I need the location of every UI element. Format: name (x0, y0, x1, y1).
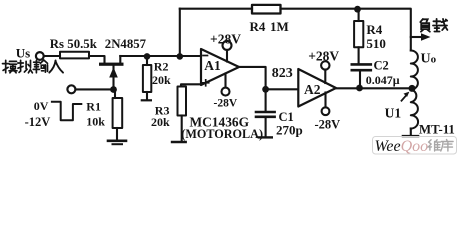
svg-text:WeeQoo: WeeQoo (375, 138, 429, 155)
svg-text:Rs: Rs (50, 37, 64, 51)
svg-text:Us: Us (16, 45, 30, 60)
svg-text:R1: R1 (86, 99, 101, 113)
A1 +28V pin circle (223, 41, 232, 50)
char 入 (49, 60, 63, 72)
A2 -28V pin circle (322, 107, 330, 115)
input terminal Us (36, 52, 44, 60)
pulse waveform symbol (52, 102, 81, 120)
svg-text:270p: 270p (276, 122, 303, 137)
resistor R2 body (143, 65, 151, 92)
node transformer tap dot (409, 85, 416, 92)
wire pulse terminal to gate node (76, 88, 110, 90)
svg-text:2N4857: 2N4857 (105, 37, 147, 51)
svg-text:510: 510 (366, 36, 386, 51)
svg-text:R4: R4 (366, 22, 382, 37)
svg-text:-12V: -12V (25, 115, 51, 129)
svg-text:Uo: Uo (421, 52, 437, 67)
wire feedback vertical (179, 9, 181, 57)
transistor Q1 source lead (119, 56, 121, 63)
label 模拟输入 (analog input, drawn glyphs) (3, 60, 64, 73)
wire top rail left (180, 8, 252, 10)
svg-text:10k: 10k (86, 114, 105, 128)
node gate junction dot (110, 86, 117, 93)
A2 +28V pin stem (324, 70, 326, 83)
svg-text:+28V: +28V (210, 31, 241, 46)
svg-text:20k: 20k (152, 73, 171, 87)
svg-text:R4: R4 (250, 19, 266, 34)
node C2 junction dot (356, 85, 363, 92)
A1 minus mark (203, 55, 208, 57)
ground below C1 (259, 136, 272, 138)
wire A2 output (336, 87, 412, 89)
ground below R1 (108, 140, 126, 143)
char 负 (420, 19, 430, 32)
load arrow (411, 36, 422, 38)
svg-text:823: 823 (272, 66, 293, 81)
svg-text:50.5k: 50.5k (67, 37, 97, 51)
svg-text:R2: R2 (154, 59, 169, 73)
char 库 (441, 140, 453, 152)
node R2 junction dot (144, 53, 151, 60)
transistor Q1 2N4857 channel bar (99, 63, 124, 66)
op-amp A1 (201, 49, 239, 85)
capacitor C1 plates (256, 111, 275, 114)
watermark box (373, 137, 457, 155)
resistor R4 510 body (354, 21, 363, 47)
resistor R4 510 lead bottom (358, 47, 360, 62)
resistor R2 lead top (146, 56, 148, 65)
resistor R1 lead bottom (116, 128, 118, 140)
svg-text:-28V: -28V (214, 98, 238, 110)
resistor R3 lead bottom (181, 116, 183, 142)
char 输 (33, 60, 47, 73)
char 载 (433, 19, 447, 32)
node A1 output junction dot (262, 86, 269, 93)
node top rail junction dot (354, 6, 361, 13)
char 拟 (18, 60, 33, 73)
svg-text:20k: 20k (151, 115, 170, 129)
watermark 维库 (drawn glyphs) (428, 140, 453, 152)
resistor R1 lead top (114, 90, 116, 99)
capacitor C2 plates (352, 63, 371, 66)
ground below R3 (172, 141, 186, 143)
svg-text:0.047μ: 0.047μ (366, 73, 400, 87)
A1 -28V pin stem (224, 74, 226, 88)
ground below R2 (142, 99, 151, 101)
svg-text:U1: U1 (385, 106, 402, 121)
svg-text:-28V: -28V (315, 118, 341, 132)
resistor R4 510 lead top (358, 9, 360, 21)
U1 pointer arrow (402, 95, 407, 101)
A1 -28V pin circle (222, 88, 230, 96)
pulse input terminal (67, 85, 75, 93)
wire Us to Rs (44, 55, 60, 57)
char 模 (3, 60, 18, 73)
transistor Q1 gate arrow (109, 67, 118, 77)
transformer bottom lead (410, 129, 412, 136)
wire Q1 source to A1 inverting input (120, 55, 201, 57)
resistor R3 body (178, 87, 187, 116)
wire to A2 input (266, 88, 299, 90)
svg-text:(MOTOROLA): (MOTOROLA) (181, 127, 263, 141)
resistor Rs body (60, 52, 89, 59)
transformer U1 winding (411, 51, 418, 129)
ground below transformer (403, 135, 418, 138)
svg-text:A1: A1 (204, 58, 221, 73)
svg-text:MT-11: MT-11 (419, 122, 455, 136)
A1 plus mark (203, 80, 209, 86)
A1 +28V pin stem (226, 50, 228, 62)
resistor R4 1M body (252, 5, 281, 14)
op-amp A2 (298, 69, 336, 107)
capacitor C1 lead bottom (265, 118, 267, 136)
resistor R2 lead bottom (146, 92, 148, 100)
wire Rs to Q1 drain (89, 56, 105, 63)
transistor Q1 gate lead (112, 66, 114, 90)
wire A1 noninverting input to R3 (181, 84, 202, 86)
svg-text:0V: 0V (34, 99, 49, 113)
resistor R1 body (113, 98, 123, 128)
A2 +28V pin circle (321, 61, 329, 69)
svg-text:1M: 1M (270, 19, 289, 34)
svg-text:A2: A2 (304, 82, 321, 97)
A2 -28V pin stem (324, 93, 326, 108)
wire A1 output (239, 67, 266, 89)
node feedback junction dot (177, 53, 184, 60)
label 负载 (load, drawn glyphs) (420, 19, 447, 32)
svg-text:C2: C2 (374, 59, 389, 73)
wire top rail right (281, 9, 411, 51)
capacitor C1 lead top (265, 89, 267, 111)
capacitor C2 lead bottom (359, 71, 361, 87)
char 维 (428, 140, 440, 151)
svg-text:+28V: +28V (308, 49, 339, 64)
